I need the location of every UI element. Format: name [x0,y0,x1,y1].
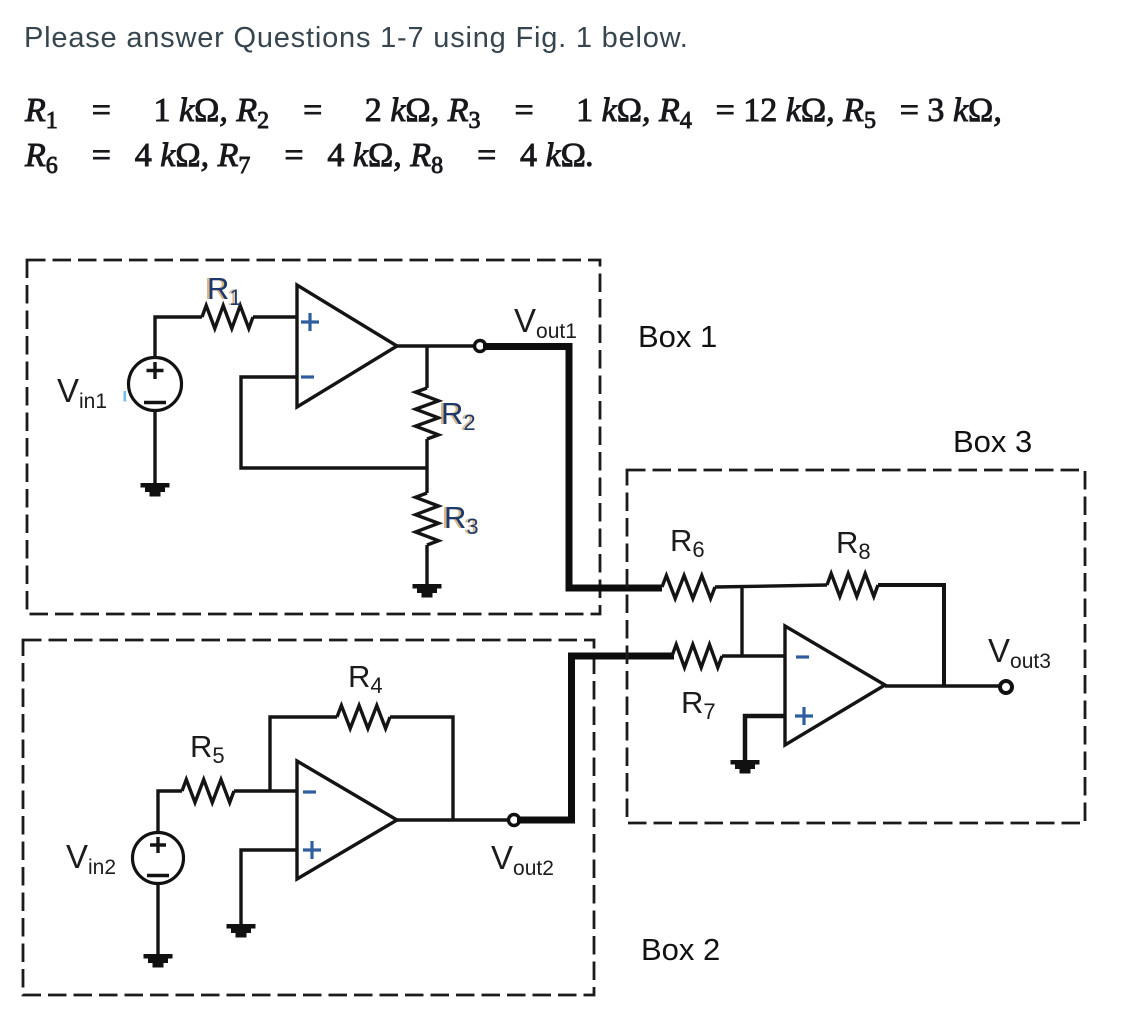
svg-text:R6 = 4 kΩ, R7 = 4 kΩ, R8 =: R6 = 4 kΩ, R7 = 4 kΩ, R8 = 4 kΩ. [24,137,594,179]
ground below U2 input [227,924,256,938]
Box 2 dashed border [23,640,594,995]
resistor R1 [202,306,253,329]
wire U2 output [397,818,508,821]
wire Vin2 to ground [156,884,159,955]
ground below Vin1 [141,483,170,497]
svg-text:Vout2: Vout2 [491,839,554,880]
svg-text:Box 2: Box 2 [641,932,720,967]
svg-text:R3: R3 [444,500,479,539]
voltage source Vin2 [133,833,184,884]
bus wire Vout2 to R7 [517,656,674,820]
wire U1 output [397,344,474,347]
resistor R4 [337,706,390,729]
wire R5 to op-amp U2 [234,789,297,792]
wire Vin1 to R1 [155,317,202,358]
resistor R6 [662,576,715,599]
wire U1 inverting feedback [241,377,427,468]
svg-text:R4: R4 [348,659,383,698]
svg-text:Vout3: Vout3 [988,632,1051,673]
wire R2 branch [425,346,428,388]
node Vout1 terminal [475,341,486,352]
ground below Vin2 [144,954,173,968]
voltage source Vin1 [129,358,182,411]
wire R8 to output [878,585,944,686]
svg-text:Vout1: Vout1 [514,302,577,343]
wire U3 noninverting to ground [745,716,785,761]
resistor R8 [827,574,878,597]
op-amp U2 [297,761,397,879]
svg-text:Please answer Questions 1-7 us: Please answer Questions 1-7 using Fig. 1… [24,22,689,54]
Box 3 dashed border [627,470,1085,823]
svg-text:R1 = 1 kΩ, R2 = 2 kΩ, R3 =: R1 = 1 kΩ, R2 = 2 kΩ, R3 = 1 kΩ, R4 = 12… [24,92,1002,134]
resistor R3 [416,493,439,545]
svg-text:R1: R1 [207,271,242,310]
cursor artifact [124,391,127,402]
svg-text:R5: R5 [190,729,225,768]
wire U3 output [885,684,1000,687]
svg-text:Box 3: Box 3 [953,424,1032,459]
svg-text:R7: R7 [681,685,716,724]
node Vout2 terminal [509,815,520,826]
ground below R3 [413,584,442,598]
wire R3 to ground [425,545,428,585]
svg-text:Vin2: Vin2 [66,838,116,879]
svg-text:R2: R2 [441,396,476,435]
Box 1 dashed border [27,260,600,614]
wire R1 to op-amp U1 [253,315,297,318]
wire R2 to R3 [425,439,428,493]
svg-text:Vin1: Vin1 [57,372,107,413]
wire Vin2 to R5 [158,791,182,833]
resistor R5 [182,780,234,803]
resistor R2 [416,388,439,439]
wire U2 noninverting to ground [241,850,297,925]
wire R7 to op-amp U3 [722,654,785,657]
svg-text:Box 1: Box 1 [638,319,717,354]
wire R4 to output [390,717,453,820]
svg-text:R8: R8 [836,525,871,564]
svg-text:R6: R6 [670,523,705,562]
resistor R7 [672,645,722,668]
op-amp U1 [297,285,397,407]
wire Vin1 to ground [153,410,156,484]
node Vout3 terminal [1000,681,1012,693]
wire R4 feedback branch [270,717,337,791]
op-amp U3 [785,626,885,745]
wire R6 to R8 [715,585,827,587]
bus wire Vout1 to R6 [483,347,662,589]
wire junction R6 to inverting node [740,587,743,656]
ground below U3 input [731,760,760,774]
